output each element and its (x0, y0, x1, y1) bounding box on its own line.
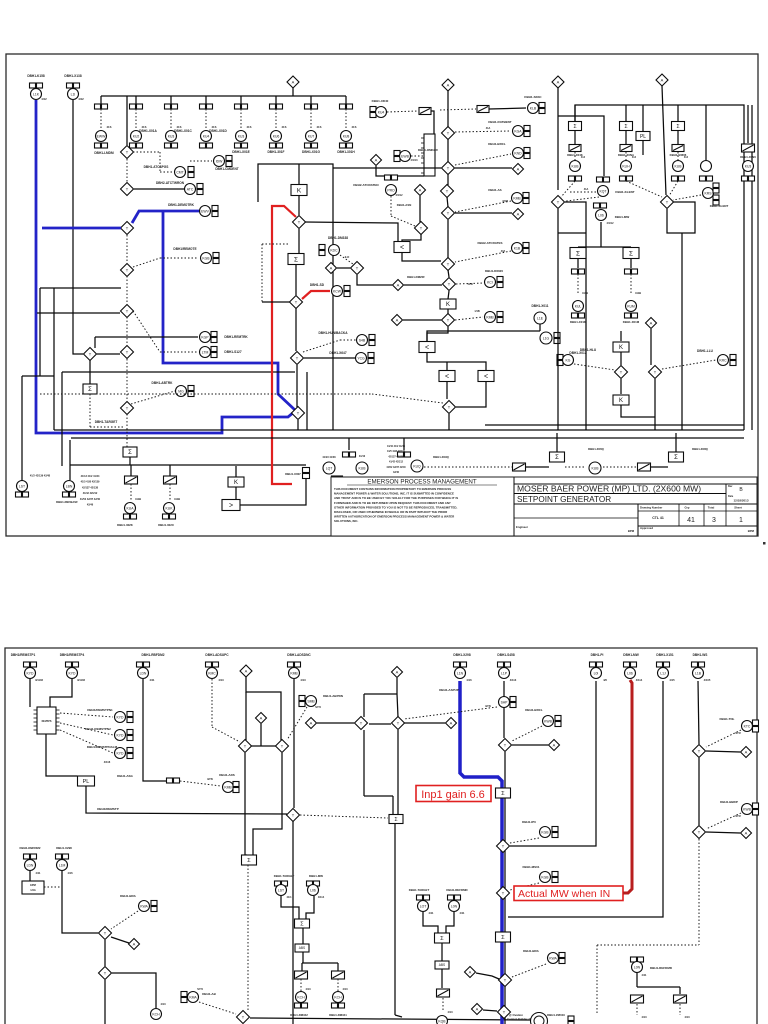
output circle DBH1-X647 (329, 351, 374, 364)
svg-text:DBH1-BBDP: DBH1-BBDP (720, 800, 738, 804)
svg-text:41/23 41/36: 41/23 41/36 (322, 456, 336, 459)
wire T36 to ovation (250, 1018, 531, 1020)
transfer switch T18 (552, 196, 565, 209)
svg-text:KUL: KUL (575, 304, 582, 308)
dashed AB to T36 (199, 1002, 236, 1014)
svg-text:Σ: Σ (88, 387, 92, 393)
node A p2 mid (306, 718, 317, 729)
wire (129, 457, 131, 465)
title EMERSON (347, 479, 497, 486)
svg-text:DBH1-TARGET: DBH1-TARGET (409, 888, 430, 892)
svg-text:A: A (450, 721, 453, 726)
svg-text:4/15: 4/15 (669, 678, 675, 682)
output circle DBH1/REMSTPN1 (87, 708, 133, 723)
svg-text:DBH1-DM341: DBH1-DM341 (329, 1013, 347, 1017)
svg-text:4/1102: 4/1102 (77, 678, 86, 682)
function circle X0N6 (740, 105, 756, 181)
output circle DBH1-SD (310, 283, 350, 297)
wire 752 vertical (751, 105, 753, 430)
svg-text:DBH1.ATCSPGS: DBH1.ATCSPGS (144, 165, 169, 169)
svg-text:MOSER BAER POWER (MP) LTD. (2X: MOSER BAER POWER (MP) LTD. (2X600 MW) (517, 484, 701, 494)
svg-text:5/7/4: 5/7/4 (315, 706, 321, 709)
wire bus y430 (54, 429, 744, 431)
low select block LT1 (419, 342, 435, 353)
wire T31 down elbow (245, 753, 247, 855)
output circle KMB2 (455, 310, 503, 323)
svg-text:DBH1-X01D: DBH1-X01D (209, 129, 227, 133)
svg-text:BPM: BPM (628, 529, 635, 533)
wire (169, 465, 171, 476)
svg-text:<: < (400, 245, 404, 252)
svg-text:SMB: SMB (307, 699, 315, 703)
svg-text:4/11: 4/11 (429, 911, 434, 915)
svg-text:DBH1/REMOTE: DBH1/REMOTE (173, 247, 196, 251)
sum block mid (389, 815, 403, 824)
wire (298, 229, 300, 253)
wire A to T13 (337, 267, 350, 269)
svg-text:K: K (234, 480, 238, 486)
wire LT2 down (446, 382, 448, 399)
svg-text:41S: 41S (352, 125, 357, 129)
wire (dashed) (126, 159, 128, 182)
input circle DBH1-X011 (531, 304, 548, 324)
svg-text:Inp1 gain 6.6: Inp1 gain 6.6 (421, 789, 485, 801)
tag 678 (672, 131, 684, 152)
wire L1M down (62, 871, 98, 933)
svg-text:Engineer: Engineer (516, 525, 529, 529)
wire ADSDNC trunk (293, 679, 295, 808)
svg-text:5/7/4: 5/7/4 (197, 988, 203, 991)
svg-text:4/6: 4/6 (603, 678, 607, 682)
svg-text:A: A (469, 970, 472, 975)
wire GT out (240, 479, 306, 505)
wire A split (246, 677, 281, 740)
wire (61, 372, 63, 466)
plain circle (700, 105, 713, 181)
svg-text:DEVBPS: DEVBPS (42, 720, 52, 723)
svg-text:EPM: EPM (30, 883, 36, 887)
input tag DBH1-X151 (656, 653, 675, 682)
tag pair col 4 (200, 104, 213, 109)
svg-text:4/114: 4/114 (636, 678, 643, 682)
svg-text:41S: 41S (107, 125, 112, 129)
svg-text:L06: L06 (627, 671, 633, 675)
input tag DBH1-S458 (497, 653, 516, 682)
svg-text:DBH1-TNL: DBH1-TNL (720, 717, 735, 721)
svg-text:KMB: KMB (486, 315, 494, 319)
svg-text:A: A (245, 669, 248, 674)
svg-text:PRO: PRO (387, 188, 395, 192)
blue trunk lower (500, 798, 504, 1024)
wire X012 feed (427, 331, 540, 341)
dashed DEVBPS out 3 (60, 730, 113, 753)
svg-text:Control Builder @: Control Builder @ (507, 1017, 531, 1021)
svg-text:DBH1-REMSTPN2: DBH1-REMSTPN2 (85, 727, 111, 731)
wire top bus (101, 95, 346, 97)
wire T35 down (104, 980, 106, 1024)
output circle DBH1-LLU (697, 349, 736, 366)
svg-text:>: > (229, 503, 233, 510)
dashed LLU to T20 (662, 360, 716, 369)
svg-text:DBH2-ATCRATEN: DBH2-ATCRATEN (353, 183, 378, 187)
svg-text:DBH1-301F: DBH1-301F (267, 150, 284, 154)
svg-text:SAP: SAP (501, 700, 509, 704)
svg-text:1: 1 (739, 517, 743, 524)
wire chain (526, 466, 549, 468)
svg-text:DBH1-RBFDM2: DBH1-RBFDM2 (141, 653, 164, 657)
svg-text:A: A (260, 716, 263, 721)
output circle DBH2-ATCTWRON (156, 181, 203, 195)
svg-text:4/1/13: 4/1/13 (411, 159, 419, 162)
svg-text:KYD: KYD (69, 671, 77, 675)
svg-text:A: A (650, 321, 653, 326)
svg-text:A: A (557, 80, 560, 85)
red annotation box Inp1 gain (416, 786, 491, 802)
output circle DBH1/REMOTE (173, 247, 219, 264)
svg-text:KND: KND (514, 151, 522, 155)
svg-text:Σ: Σ (576, 250, 580, 257)
wire (dashed) (126, 235, 128, 263)
wire T6 out (97, 353, 120, 355)
label DBH1-TARGET (95, 420, 118, 424)
PL block (636, 105, 650, 155)
dashed ATCRATES to T54 (455, 251, 511, 262)
diff block (295, 919, 310, 928)
dashed KRS to T19 (673, 195, 701, 200)
dashed to CMT (133, 152, 173, 172)
svg-text:A: A (419, 188, 422, 193)
input tag DBH1-X298 b (56, 846, 74, 875)
wire T30 trunk (292, 821, 294, 1024)
svg-text:KGA: KGA (514, 129, 522, 133)
svg-text:KWB: KWB (743, 807, 751, 811)
node A p2 top (240, 665, 252, 677)
svg-text:KWA: KWA (549, 956, 557, 960)
transfer switch T13 (351, 262, 364, 275)
svg-text:Total: Total (708, 506, 715, 510)
svg-text:KU3: KU3 (745, 164, 752, 168)
wire (dashed) (126, 359, 128, 401)
wire PI down (510, 681, 596, 846)
svg-text:DBH1-PI: DBH1-PI (591, 653, 604, 657)
svg-text:DBH1-ADS: DBH1-ADS (219, 773, 235, 777)
svg-text:Σ: Σ (674, 455, 678, 461)
svg-text:KU4: KU4 (203, 134, 210, 138)
wire REFDMD split (637, 973, 680, 994)
dashed TNL to T44 (706, 730, 741, 747)
svg-text:A: A (447, 83, 450, 88)
sum block S7 (669, 433, 709, 462)
svg-text:DBH1-X151: DBH1-X151 (656, 653, 673, 657)
svg-text:Σ: Σ (294, 256, 298, 263)
svg-text:DBH1-S127: DBH1-S127 (224, 350, 241, 354)
transfer switch T34 (99, 927, 112, 940)
svg-text:LTM: LTM (202, 350, 209, 354)
wire LT0 out (402, 253, 441, 261)
output circle DBH1-X01K (570, 301, 587, 325)
svg-text:4/13: 4/13 (160, 1002, 166, 1006)
output circle DBH1-HUNIBACKA (318, 331, 375, 346)
svg-text:42/46: 42/46 (87, 504, 94, 507)
svg-text:41/10 41/2 41/44: 41/10 41/2 41/44 (387, 445, 406, 448)
output circle DBH2-ATCRATES (477, 241, 529, 254)
block ABS (295, 944, 309, 952)
dashed DEVBPS out 2 (60, 723, 113, 735)
svg-text:DBH1-LLU: DBH1-LLU (697, 349, 714, 353)
svg-text:DBH1-XD40: DBH1-XD40 (372, 99, 389, 103)
transfer switch T1 (121, 146, 134, 159)
node A p2 r0 (446, 718, 457, 729)
svg-text:Σ: Σ (573, 124, 576, 130)
svg-text:ATC: ATC (187, 187, 194, 191)
transfer switch T32 (276, 740, 289, 753)
svg-text:LST: LST (19, 484, 25, 488)
input tag DBH1-RBFDM2 b (20, 846, 41, 875)
wire bottom bus (70, 464, 306, 466)
svg-text:KUH: KUH (622, 164, 630, 168)
input tag DBH1-K158 (27, 74, 47, 101)
svg-text:411B: 411B (135, 497, 141, 501)
svg-text:AND TRUST AND IS TO BE USED BY: AND TRUST AND IS TO BE USED BY YOU SOLEL… (334, 496, 458, 500)
input tag DBH1-REFDMD r (446, 888, 467, 915)
blue wire mid vertical (163, 211, 295, 410)
dashed EPM right (44, 886, 62, 888)
red trunk page2 (623, 680, 632, 893)
dashed 575 to T18 (561, 181, 575, 197)
output circle KQB (437, 1016, 448, 1024)
wire T34b down (397, 730, 399, 814)
dashed to REMOTE (133, 258, 198, 267)
output circle DBH1-TNL (720, 717, 759, 735)
svg-text:12/18/2013: 12/18/2013 (733, 499, 748, 503)
output circle DBH1-BRCL p1 (488, 142, 530, 159)
svg-text:KGB: KGB (541, 830, 549, 834)
transfer switch T41 (497, 840, 510, 853)
svg-text:DBH1/REMSTPN1: DBH1/REMSTPN1 (87, 708, 113, 712)
output circle DBH1-301X (158, 503, 175, 528)
wire input X138 down (73, 100, 83, 354)
svg-text:K1B: K1B (514, 246, 521, 250)
logic block DBH1-OMDAR (421, 134, 435, 176)
svg-text:DBH1-OMDAR: DBH1-OMDAR (418, 148, 439, 152)
tag pair col 6 (270, 104, 283, 109)
svg-text:L1E: L1E (537, 316, 544, 320)
svg-text:DBH1-REMTRK: DBH1-REMTRK (224, 335, 248, 339)
output circle DBH1-X01M (623, 301, 640, 325)
transfer switch T11 (291, 352, 304, 365)
svg-text:Σ: Σ (501, 935, 505, 941)
node A r2 (513, 209, 524, 220)
sum block S3 (288, 254, 304, 265)
wire Z1 to OMDAR (431, 111, 434, 134)
dashed 626 to T19 (626, 181, 662, 197)
svg-text:Σ: Σ (501, 791, 505, 797)
wire T13 out (357, 275, 392, 285)
block PL p2 (78, 776, 95, 786)
svg-text:KTC: KTC (744, 724, 751, 728)
svg-text:DBH1-S0666: DBH1-S0666 (670, 153, 687, 157)
svg-text:L1G: L1G (543, 336, 550, 340)
svg-text:DBH1/REMSTPNALM: DBH1/REMSTPNALM (87, 745, 118, 749)
svg-text:41/1: 41/1 (286, 895, 292, 899)
monitor column 3 drop (170, 96, 172, 104)
wire (296, 365, 298, 407)
svg-text:DBH1-DM338: DBH1-DM338 (328, 236, 348, 240)
wire T51 to A (455, 167, 512, 169)
input tag DBH1/REMSTP1 (11, 653, 44, 682)
dashed diag to T16 (40, 394, 443, 403)
output circle DBH1-MS01 (522, 865, 558, 883)
svg-text:41/42 42/212: 41/42 42/212 (83, 492, 98, 495)
svg-text:41: 41 (687, 517, 695, 524)
node A 662 (656, 74, 668, 86)
sum block S1 (83, 360, 97, 394)
svg-text:Rev: Rev (728, 485, 733, 488)
tag pair col 7 (305, 104, 318, 109)
output circle DBH1-ADS (219, 773, 239, 793)
svg-text:KMA: KMA (189, 995, 197, 999)
svg-text:KCI: KCI (487, 280, 493, 284)
svg-text:DBH1-X647: DBH1-X647 (329, 351, 346, 355)
svg-text:DBH1-X01G: DBH1-X01G (302, 150, 320, 154)
svg-text:S4B: S4B (359, 338, 366, 342)
wire (235, 487, 237, 500)
svg-text:DBH1-302K: DBH1-302K (117, 523, 134, 527)
dashed drop col 7 (311, 109, 322, 130)
input tag DBH1-MW b (307, 874, 325, 899)
transfer switch T35 (99, 967, 112, 980)
svg-text:CMT: CMT (176, 170, 183, 174)
svg-text:SETPOINT GENERATOR: SETPOINT GENERATOR (517, 495, 611, 504)
sum block p2 left (242, 855, 257, 865)
dashed T8 down (126, 414, 128, 447)
svg-text:L06: L06 (310, 888, 316, 892)
svg-text:KU6: KU6 (273, 134, 280, 138)
node A 558 (552, 76, 564, 88)
wire (447, 139, 449, 162)
dashed T30 right (300, 815, 388, 818)
svg-text:Σ: Σ (624, 124, 627, 130)
input circle DBH1-REFDMD (631, 957, 673, 977)
transfer switch T17 (615, 352, 628, 379)
transfer switch T15 (442, 314, 455, 327)
node A col (442, 79, 454, 91)
svg-text:4/105: 4/105 (704, 678, 711, 682)
wire inner2 (446, 362, 448, 370)
transfer tag Z2 (477, 106, 489, 113)
reference list (80, 475, 101, 507)
label DBH1-X01E (232, 150, 250, 154)
input circle LQT (322, 456, 342, 480)
wire to ATC output (134, 188, 184, 190)
dashed chain b1 (424, 466, 512, 468)
svg-text:L1K: L1K (33, 92, 40, 96)
svg-text:A: A (397, 283, 400, 288)
wire trunk black lower (504, 798, 506, 1024)
title divider lines (514, 477, 757, 536)
wire (447, 91, 449, 127)
dashed r2 (680, 1004, 690, 1019)
svg-text:KUA: KUA (127, 506, 135, 510)
node A p2 r1 (549, 740, 560, 751)
wire LDN down (29, 871, 31, 881)
svg-text:KRC: KRC (719, 358, 727, 362)
svg-text:DBH1-SD4C: DBH1-SD4C (524, 95, 542, 99)
input circle KUQ (411, 455, 450, 472)
logic block DEVBPS (34, 707, 60, 734)
dashed T45 down (698, 839, 700, 945)
function circle EWB (394, 148, 439, 162)
output circle DBH1-IP0 (522, 820, 558, 838)
output circle DBH1-BRA r (523, 949, 565, 964)
monitor column 4 drop (205, 96, 207, 104)
svg-text:KCH: KCH (297, 995, 305, 999)
transfer tag r2 (674, 995, 687, 1003)
svg-text:9/7/9: 9/7/9 (207, 778, 213, 781)
svg-text:DBH1-LMDM: DBH1-LMDM (94, 151, 114, 155)
wire (419, 196, 421, 222)
dashed ATCRATEN down (391, 196, 415, 226)
svg-text:KU7: KU7 (308, 134, 315, 138)
transfer switch T46 (498, 1006, 511, 1019)
svg-text:1/1B: 1/1B (474, 310, 479, 313)
tag S5 (625, 259, 638, 274)
wire T56 to LT0 (402, 234, 421, 242)
svg-text:4/13: 4/13 (305, 987, 311, 991)
wire (448, 414, 450, 430)
svg-text:DBH1-X04K: DBH1-X04K (567, 153, 583, 157)
title fields (640, 506, 742, 510)
node A p2 bl (129, 939, 140, 950)
wire left vertical 40 (39, 288, 41, 376)
tag pair col 3 (165, 104, 178, 109)
dashed drop col 2 (136, 109, 147, 130)
wire L06 to sums (578, 222, 631, 249)
dashed drop col 4 (206, 109, 217, 130)
wire A to T46 (483, 1010, 497, 1011)
svg-text:ABS: ABS (439, 963, 445, 967)
svg-text:Σ: Σ (676, 124, 679, 130)
svg-text:DBH1-K158: DBH1-K158 (27, 74, 45, 78)
wire A to T43 (476, 973, 499, 979)
svg-text:DBH1-MW: DBH1-MW (309, 874, 323, 878)
dashed ASG chain (180, 778, 221, 786)
wire A mid to T33 (317, 722, 354, 724)
tag 626 (620, 131, 632, 152)
wire merge (281, 896, 314, 919)
wire TARGET merge r (423, 912, 454, 933)
svg-text:A: A (396, 670, 399, 675)
svg-text:L0N: L0N (451, 904, 458, 908)
svg-text:DISCLOSED, OR USED OTHERWISE I: DISCLOSED, OR USED OTHERWISE IN WHOLE OR… (334, 510, 448, 514)
low select block LT0 (394, 242, 410, 253)
transfer tag r1 (631, 995, 644, 1003)
input tag DBH1-RBFDM2 (137, 653, 165, 682)
svg-text:PL: PL (640, 134, 646, 140)
svg-text:Σ: Σ (394, 817, 397, 823)
svg-text:Approved: Approved (640, 526, 653, 530)
sum block S6 (550, 433, 605, 462)
red wire page1 (272, 206, 296, 484)
wire (235, 466, 237, 477)
svg-text:411B: 411B (635, 291, 641, 295)
dashed BRCL to T40 (512, 726, 542, 741)
svg-text:A: A (553, 743, 556, 748)
dashed DM338 to T13 (340, 255, 353, 264)
svg-text:Drawing Number: Drawing Number (640, 506, 663, 510)
svg-text:4/11: 4/11 (36, 871, 41, 875)
svg-text:DBH1-SD: DBH1-SD (310, 283, 325, 287)
